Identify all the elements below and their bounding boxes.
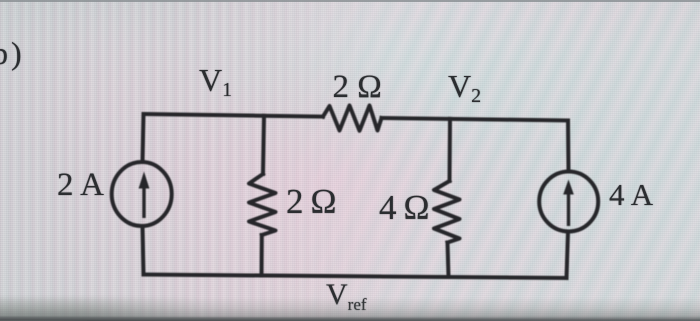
resistor R1 value label 2 Ω	[333, 69, 382, 106]
current source I2 4A circle	[539, 172, 598, 232]
resistor R3 value label 4 Ω	[379, 188, 430, 228]
net Vref label	[326, 278, 367, 312]
wire: V2 branch top lead (top rail tee down to R3)	[448, 119, 453, 181]
arrow of current source I2	[567, 193, 570, 226]
wire: right branch, top-right corner down to I2 top	[566, 121, 571, 172]
wire: V1 branch top lead (top rail tee down to R2)	[263, 116, 264, 174]
current source I1 2A circle	[112, 162, 172, 226]
wire: left branch, top-left corner down to I1 top	[143, 114, 144, 162]
label b) problem marker	[0, 35, 25, 72]
current source I2 value label 4 A	[609, 177, 653, 213]
resistor R2 value label 2 Ω	[286, 182, 337, 222]
resistor R1 2Ω horizontal zigzag	[323, 106, 382, 131]
wire: bottom rail from bottom-left to bottom-right corner	[144, 275, 567, 279]
arrow of current source I1	[142, 186, 145, 218]
current source I1 value label 2 A	[57, 167, 104, 204]
wire: V1 branch bottom lead (R2 down to bottom rail)	[260, 235, 264, 276]
wire: left branch, I1 bottom down to bottom-left corner	[143, 226, 144, 275]
node V1 label	[199, 62, 232, 99]
resistor R2 2Ω vertical zigzag	[249, 174, 276, 235]
wire: top right segment from R1 right lead to top-right corner	[382, 118, 569, 121]
wire: right branch, I2 bottom down to bottom-right corner	[567, 232, 569, 279]
wire: top left segment from top-left corner to R1 left lead	[144, 114, 324, 117]
resistor R3 4Ω vertical zigzag	[434, 181, 460, 243]
node V2 label	[448, 68, 481, 105]
wire: V2 branch bottom lead (R3 down to bottom rail)	[448, 243, 449, 278]
